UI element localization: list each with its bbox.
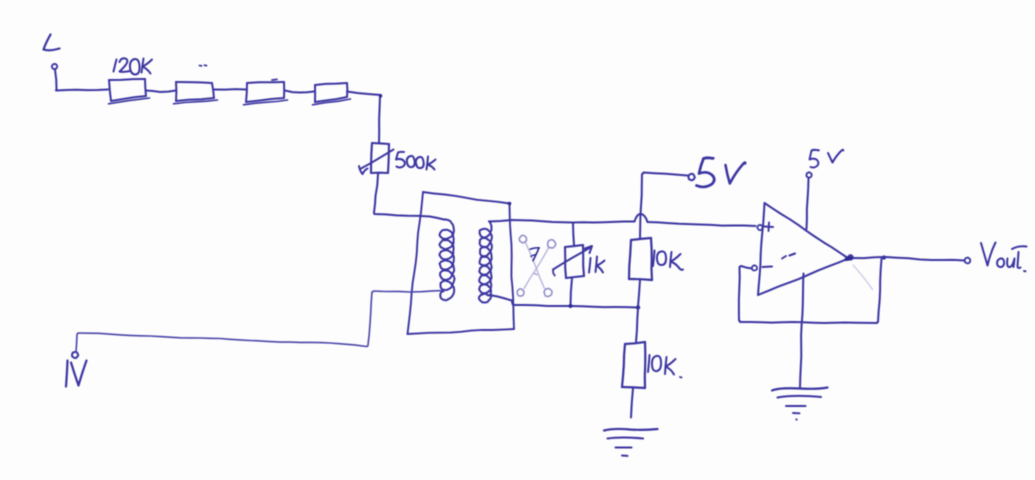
potentiometer 1k body — [565, 245, 584, 278]
wire: R2 to R3 — [214, 88, 246, 91]
potentiometer 1k arrow — [553, 246, 592, 276]
ground symbol (op-amp) — [772, 388, 828, 421]
wire: op-amp output to Vout — [853, 257, 965, 261]
op-amp inverting input terminal — [752, 265, 757, 270]
wire: 5V terminal to 10K top — [640, 173, 688, 239]
dots above R2 — [200, 64, 207, 67]
wire: 500k to transformer primary — [374, 174, 444, 220]
wire: L terminal to R1 — [55, 70, 108, 91]
wire: 10K lower to ground — [631, 388, 633, 418]
transformer primary winding — [440, 219, 455, 300]
value label "120K" — [114, 58, 153, 74]
resistor 10K lower — [622, 342, 645, 388]
op-amp output terminal — [845, 255, 853, 260]
switch S1 blade 1 — [526, 243, 545, 289]
node label "Vout." — [981, 243, 1027, 272]
wire: secondary top to node A — [489, 220, 573, 223]
terminal L — [52, 64, 57, 69]
terminal Vout — [965, 258, 971, 264]
junction: output node — [882, 255, 886, 259]
terminal 5V (op-amp) — [807, 172, 812, 178]
resistor R4 — [313, 83, 351, 105]
node L label — [44, 35, 60, 51]
op-amp U1 body — [758, 203, 849, 295]
wire: node A to hop — [573, 222, 635, 223]
resistor R3 — [244, 82, 288, 105]
wire: junction to 10K lower — [636, 308, 638, 342]
faint pen mark near apex — [853, 265, 873, 290]
junction: pot bottom — [569, 304, 573, 308]
resistor R2 — [174, 82, 218, 104]
corner blob R4 wire — [379, 94, 382, 97]
node N label — [66, 361, 87, 387]
variable resistor 500k body — [371, 143, 389, 173]
switch S1 contact top-left — [519, 235, 526, 243]
junction: divider tap — [636, 305, 640, 309]
value label "10K." lower — [648, 355, 682, 378]
wire: N to transformer primary bottom — [76, 291, 444, 353]
value label "10K" upper — [653, 251, 683, 270]
wire hop over 5V feed — [635, 214, 648, 222]
wire: bottom rail — [512, 301, 638, 308]
value label "1k" — [589, 257, 605, 273]
op-amp non-inverting input terminal — [757, 225, 762, 231]
power label "5V" — [697, 158, 746, 187]
wire: pot bottom to bottom rail — [571, 278, 573, 306]
wire: node A to pot top — [573, 223, 574, 245]
resistor R1 — [109, 79, 150, 104]
op-amp plus sign — [765, 223, 774, 232]
wire: feedback loop — [739, 259, 882, 323]
transformer core box — [408, 192, 515, 334]
op-amp minus sign — [763, 266, 773, 269]
transformer secondary winding — [479, 221, 492, 302]
wire: secondary bottom lead — [489, 295, 512, 301]
terminal 5V supply — [688, 174, 695, 181]
wire: op-amp to ground — [800, 274, 804, 388]
wire: R4 to 500k corner — [347, 92, 381, 144]
terminal N — [72, 352, 78, 358]
resistor 10K upper — [629, 238, 652, 280]
wire: 5V to op-amp top — [807, 178, 809, 229]
wire: hop to op-amp non-inverting input — [648, 222, 756, 226]
switch S1 contact top-right — [548, 240, 556, 248]
power label "5V" (op-amp) — [810, 150, 844, 168]
switch S1 blade 2 — [524, 248, 549, 289]
ground symbol (divider) — [604, 429, 658, 456]
switch S1 contact bottom-left — [517, 289, 524, 296]
switch S1 contact bottom-right — [544, 288, 552, 296]
tick above R3 — [272, 78, 277, 81]
wire: R3 to R4 — [285, 91, 314, 93]
wire: 10K upper to junction — [638, 280, 640, 307]
variable resistor 500k arrow — [359, 150, 394, 175]
wire: R1 to R2 — [146, 91, 176, 93]
switch S1 wiper mark — [530, 248, 539, 275]
value label "500k" — [396, 152, 436, 170]
op-amp stray dashes — [782, 254, 795, 259]
